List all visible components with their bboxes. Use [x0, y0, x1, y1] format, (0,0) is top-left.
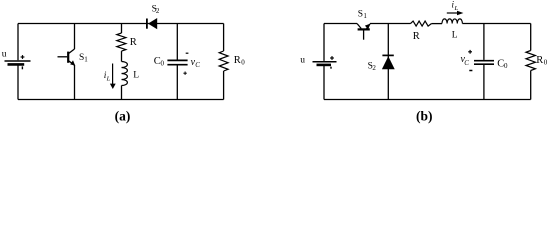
svg-text:L: L: [133, 70, 139, 80]
svg-text:0: 0: [544, 59, 548, 67]
svg-text:R: R: [130, 37, 137, 48]
svg-text:1: 1: [84, 56, 88, 64]
svg-text:2: 2: [372, 64, 376, 72]
svg-text:(a): (a): [115, 108, 131, 123]
svg-text:2: 2: [156, 7, 160, 15]
svg-text:R: R: [413, 31, 420, 42]
svg-text:u: u: [300, 55, 305, 65]
svg-text:L: L: [452, 31, 458, 41]
svg-text:C: C: [464, 59, 469, 67]
svg-text:0: 0: [161, 60, 165, 68]
svg-text:u: u: [2, 49, 7, 59]
svg-text:1: 1: [363, 12, 367, 20]
svg-text:C: C: [195, 61, 200, 69]
svg-text:L: L: [454, 5, 459, 12]
svg-text:L: L: [106, 75, 111, 82]
svg-text:0: 0: [504, 62, 508, 70]
svg-text:0: 0: [241, 59, 245, 67]
svg-text:(b): (b): [416, 108, 433, 123]
svg-text:R: R: [536, 55, 543, 66]
svg-text:R: R: [234, 55, 241, 66]
svg-text:S: S: [358, 10, 363, 20]
